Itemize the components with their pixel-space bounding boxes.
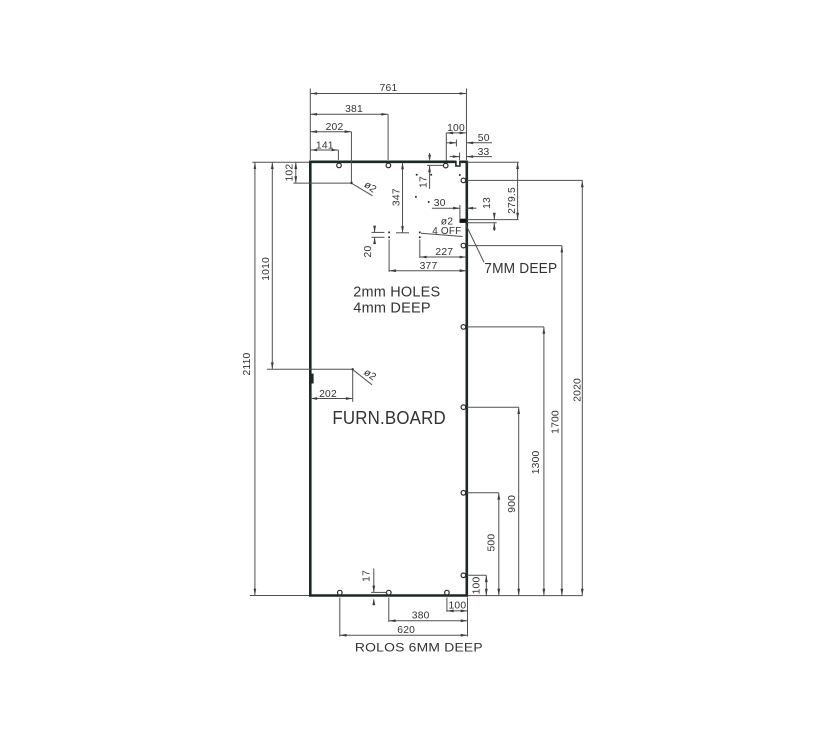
label rolos 6mm deep — [355, 641, 483, 655]
dim 1700 — [550, 246, 563, 596]
measure line right hole2 — [467, 245, 562, 247]
2mm hole dot j (202/102) — [350, 182, 352, 184]
svg-text:347: 347 — [392, 188, 403, 206]
measure line right hole6 — [467, 574, 486, 576]
svg-text:1010: 1010 — [261, 257, 272, 281]
svg-text:ø2: ø2 — [361, 367, 378, 383]
tick 33 — [459, 153, 461, 161]
svg-text:620: 620 — [397, 625, 415, 636]
leader 7mm deep — [466, 225, 484, 263]
svg-text:100: 100 — [472, 577, 483, 595]
measure line right hole1 — [467, 179, 582, 181]
7mm deep slot (black square on right edge) — [460, 219, 467, 223]
tick 347 — [396, 232, 409, 234]
svg-text:20: 20 — [363, 246, 374, 258]
2mm hole dot e — [428, 201, 430, 203]
svg-text:FURN.BOARD: FURN.BOARD — [332, 408, 446, 428]
dim 761 — [310, 83, 466, 95]
dim 381 — [310, 104, 388, 116]
extension line right main — [465, 89, 467, 161]
svg-text:279.5: 279.5 — [507, 187, 518, 214]
svg-text:33: 33 — [478, 147, 490, 158]
svg-text:50: 50 — [478, 133, 490, 144]
svg-text:380: 380 — [412, 610, 430, 621]
dim 227 — [420, 247, 467, 258]
svg-text:202: 202 — [319, 389, 337, 400]
extension line 202 to hole j — [350, 132, 352, 182]
svg-text:1700: 1700 — [550, 410, 561, 434]
svg-text:17: 17 — [419, 176, 430, 188]
svg-text:2mm HOLES: 2mm HOLES — [353, 285, 440, 301]
svg-text:100: 100 — [447, 123, 465, 134]
2mm hole dot g — [419, 231, 421, 233]
tick 30 — [459, 205, 461, 219]
svg-text:13: 13 — [482, 197, 493, 209]
hole top-2 — [386, 163, 391, 168]
extension line 102 — [293, 182, 350, 184]
label 2mm holes — [353, 285, 440, 301]
dim 900 — [507, 407, 520, 595]
svg-text:4mm DEEP: 4mm DEEP — [353, 300, 431, 316]
extension line 377 — [388, 240, 390, 272]
hole right-2 — [461, 243, 466, 248]
dim 380 — [389, 610, 468, 622]
dim 50 — [446, 133, 492, 144]
measure line right hole4 — [467, 406, 519, 408]
extension line 1010 — [267, 368, 353, 370]
svg-text:7MM DEEP: 7MM DEEP — [484, 260, 557, 277]
leader o2 left — [354, 367, 378, 385]
extension line bhole3 — [446, 598, 448, 612]
2mm hole dot a — [416, 174, 418, 176]
extension line 279.5 top — [467, 161, 519, 163]
label 7mm deep — [484, 260, 557, 277]
extension line bottom-left — [250, 595, 309, 597]
hole top-1 — [337, 163, 342, 168]
svg-text:381: 381 — [345, 104, 363, 115]
2mm hole dot k (202/1010) — [352, 368, 354, 370]
2mm hole dot h — [388, 236, 390, 238]
leader 4 off — [421, 233, 463, 236]
svg-text:ROLOS 6MM DEEP: ROLOS 6MM DEEP — [355, 641, 483, 655]
svg-text:377: 377 — [420, 261, 438, 272]
hole right-6 — [461, 573, 466, 578]
dim 13 — [482, 197, 496, 231]
dim 102 — [284, 162, 297, 183]
extension line bright — [467, 598, 469, 637]
extension line bhole2 — [388, 598, 390, 623]
hole top-3 — [443, 163, 448, 168]
dim 17 bottom — [362, 569, 387, 606]
extension line 141 — [337, 150, 339, 160]
dim 17 top — [419, 153, 432, 189]
label 4mm deep — [353, 300, 431, 316]
dim 202 top — [310, 122, 351, 133]
hole right-3 — [461, 325, 466, 330]
svg-text:30: 30 — [434, 198, 446, 209]
svg-text:2110: 2110 — [242, 352, 253, 375]
hole right-5 — [461, 491, 466, 496]
dim 2020 — [573, 180, 584, 595]
svg-text:17: 17 — [362, 570, 373, 582]
dim 20 — [363, 226, 384, 258]
extension line 202 left — [352, 370, 354, 402]
svg-text:100: 100 — [449, 601, 467, 612]
dim 100 bottom — [447, 601, 468, 613]
extension line top-left — [252, 161, 309, 163]
left edge notch — [311, 374, 314, 384]
dim 100 right — [472, 575, 488, 595]
label furn.board — [332, 408, 446, 428]
dim 33 — [450, 147, 492, 158]
board outline bottom edge (wire) — [309, 594, 468, 597]
dim 141 — [310, 140, 338, 151]
hole bottom-2 — [387, 590, 392, 595]
label o2 4 off — [432, 217, 461, 237]
svg-text:202: 202 — [326, 122, 344, 133]
measure line slot top — [467, 219, 519, 221]
2mm hole dot d — [415, 196, 417, 198]
2mm hole dot f — [388, 231, 390, 233]
dim 347 — [392, 163, 404, 234]
measure line 17 top — [427, 164, 443, 166]
dim 202 left — [310, 389, 352, 400]
dim 100 top — [446, 123, 466, 134]
dim 377 — [389, 261, 466, 272]
extension line 227 — [419, 240, 421, 259]
dim 1010 — [261, 162, 274, 369]
board outline top edge with notch (wire) — [309, 161, 468, 166]
measure line slot bottom — [467, 222, 497, 224]
svg-text:2020: 2020 — [573, 378, 584, 402]
svg-text:761: 761 — [380, 83, 398, 94]
extension line left main — [309, 89, 311, 161]
extension line bottom-right — [468, 595, 582, 597]
2mm hole dot i — [419, 236, 421, 238]
2mm hole dot c — [459, 174, 461, 176]
hole right-1 — [461, 178, 466, 183]
svg-text:1300: 1300 — [531, 450, 542, 474]
svg-text:900: 900 — [507, 495, 518, 513]
board outline left edge (wire) — [309, 161, 312, 597]
extension line 100 top — [445, 133, 447, 161]
svg-text:141: 141 — [316, 140, 334, 151]
dim 1300 — [531, 327, 545, 596]
measure line right hole3 — [467, 326, 544, 328]
board outline right edge (wire) — [465, 161, 468, 597]
extension line bhole1 — [339, 598, 341, 637]
dim 500 — [486, 493, 500, 596]
measure line right hole5 — [467, 492, 499, 494]
hole bottom-1 — [338, 590, 343, 595]
svg-text:227: 227 — [435, 247, 453, 258]
dim 620 — [340, 625, 468, 637]
svg-text:102: 102 — [284, 164, 295, 182]
svg-text:500: 500 — [486, 534, 497, 552]
dim 279.5 — [507, 162, 519, 219]
dim 30 — [432, 198, 477, 209]
leader o2 top — [353, 179, 379, 195]
extension line 381 — [387, 114, 389, 160]
tick 50 — [455, 140, 457, 147]
2mm hole dot b — [430, 174, 432, 176]
hole right-4 — [461, 405, 466, 410]
hole bottom-3 — [445, 590, 450, 595]
svg-text:ø2: ø2 — [362, 179, 379, 195]
dim 2110 — [242, 162, 256, 595]
